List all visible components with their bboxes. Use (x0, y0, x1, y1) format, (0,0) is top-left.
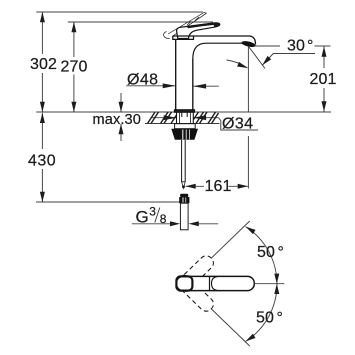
svg-text:max.30: max.30 (93, 112, 141, 128)
svg-text:430: 430 (28, 153, 56, 170)
svg-text:3: 3 (149, 205, 156, 219)
svg-text:Ø48: Ø48 (127, 72, 158, 89)
svg-text:30°: 30° (287, 38, 314, 55)
svg-text:8: 8 (160, 212, 167, 226)
svg-text:302: 302 (30, 56, 57, 73)
svg-text:50°: 50° (256, 310, 283, 327)
svg-text:270: 270 (61, 59, 88, 76)
svg-text:Ø34: Ø34 (222, 116, 253, 133)
svg-text:50°: 50° (257, 244, 284, 261)
svg-text:201: 201 (310, 71, 337, 88)
svg-text:161: 161 (205, 178, 232, 195)
svg-text:G: G (136, 208, 149, 227)
